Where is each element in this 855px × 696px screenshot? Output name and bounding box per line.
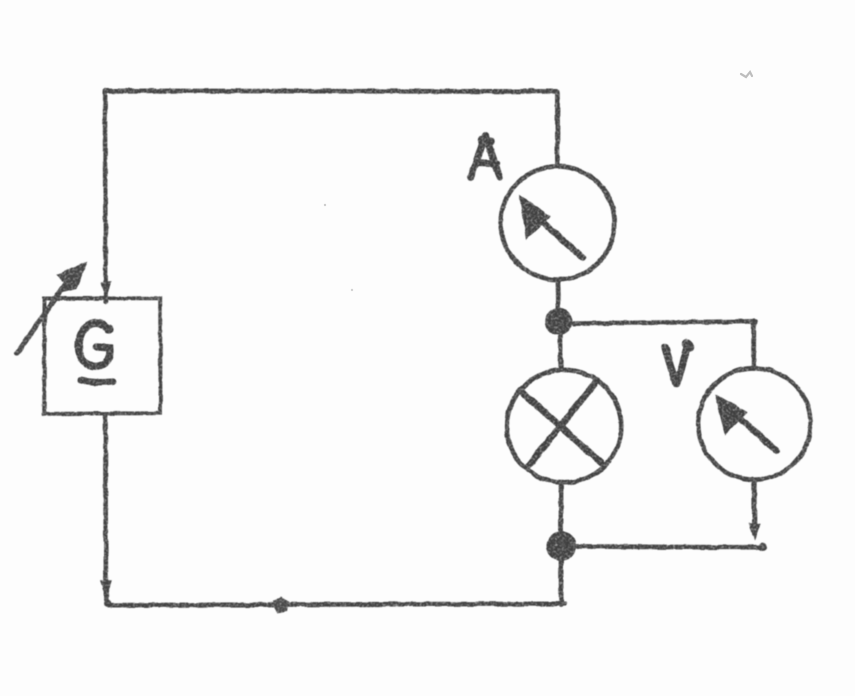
voltmeter V1: needle shaft	[740, 419, 776, 451]
lamp L1: cross stroke 1	[523, 393, 602, 464]
ammeter A1: dial circle	[501, 166, 615, 279]
arrowhead at bottom of voltmeter wire	[750, 524, 760, 538]
wire: voltmeter branch right vertical down to voltmeter	[751, 322, 756, 368]
ammeter A1: needle arrowhead	[521, 198, 549, 237]
wire: left vertical lower (G box down to bottom corner)	[103, 414, 108, 600]
wire: bottom horizontal	[108, 604, 565, 606]
pen blob on top wire near corner	[527, 88, 535, 93]
lamp L1: cross stroke 2	[528, 381, 597, 467]
wire: voltmeter bottom vertical	[752, 481, 757, 535]
junction blob on bottom wire	[275, 599, 287, 612]
label V	[665, 344, 690, 384]
ammeter A1: needle shaft	[541, 221, 583, 258]
voltmeter V1: needle arrowhead	[717, 397, 745, 433]
adjustable arrow: head	[58, 264, 86, 293]
voltmeter V1: dial circle	[698, 368, 810, 480]
wire: node 1 to lamp	[558, 334, 563, 370]
end blob of voltmeter bottom wire	[758, 543, 766, 551]
label G (inside box)	[79, 323, 110, 366]
node junction 1 (ammeter / lamp / voltmeter top)	[546, 308, 572, 334]
faint speck left of ammeter	[324, 204, 326, 206]
wire: left vertical upper (top corner down to G box)	[103, 91, 108, 303]
faint pencil smudge top-right	[741, 72, 752, 77]
wire: top horizontal (battery top to ammeter branch)	[105, 88, 557, 93]
wire: ammeter to node 1	[556, 280, 561, 314]
generator G1: corner pen dots	[157, 296, 162, 301]
wire: voltmeter branch bottom horizontal	[572, 546, 762, 547]
lamp L1: circle	[507, 370, 622, 483]
corner blob top-right of voltmeter branch	[750, 318, 757, 325]
wire: node 2 down to bottom wire	[559, 560, 564, 605]
generator G1: box	[44, 298, 160, 414]
wire: lamp to node 2	[559, 484, 564, 536]
label A	[471, 136, 500, 178]
node junction 2 (lamp / voltmeter bottom / bottom wire)	[547, 532, 575, 560]
current-direction arrowhead on left wire near bottom corner	[101, 581, 111, 598]
wire: voltmeter branch top horizontal	[569, 321, 753, 323]
current-direction arrowhead on left wire above G box	[102, 283, 110, 297]
wire: right vertical from top corner to ammeter	[555, 92, 560, 166]
label G underline	[81, 381, 113, 383]
corner blob bottom-left	[104, 600, 112, 608]
adjustable arrow through G box: shaft	[17, 280, 68, 354]
